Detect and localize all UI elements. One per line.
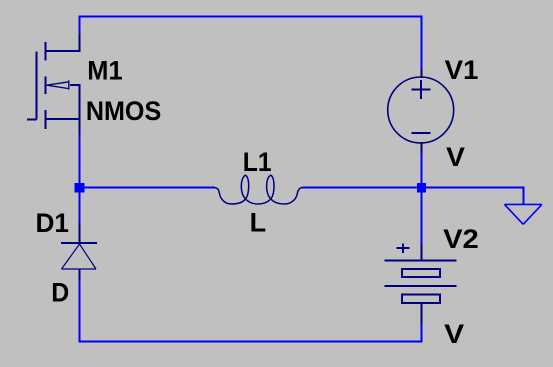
svg-text:M1: M1 xyxy=(87,55,122,85)
svg-text:D1: D1 xyxy=(36,208,70,238)
svg-text:V: V xyxy=(446,142,465,172)
svg-text:NMOS: NMOS xyxy=(86,96,161,126)
svg-text:L1: L1 xyxy=(243,147,272,177)
svg-text:V1: V1 xyxy=(445,55,479,85)
svg-text:L: L xyxy=(250,207,267,237)
svg-text:D: D xyxy=(51,277,69,307)
svg-text:V2: V2 xyxy=(443,224,479,254)
svg-text:V: V xyxy=(444,319,464,349)
